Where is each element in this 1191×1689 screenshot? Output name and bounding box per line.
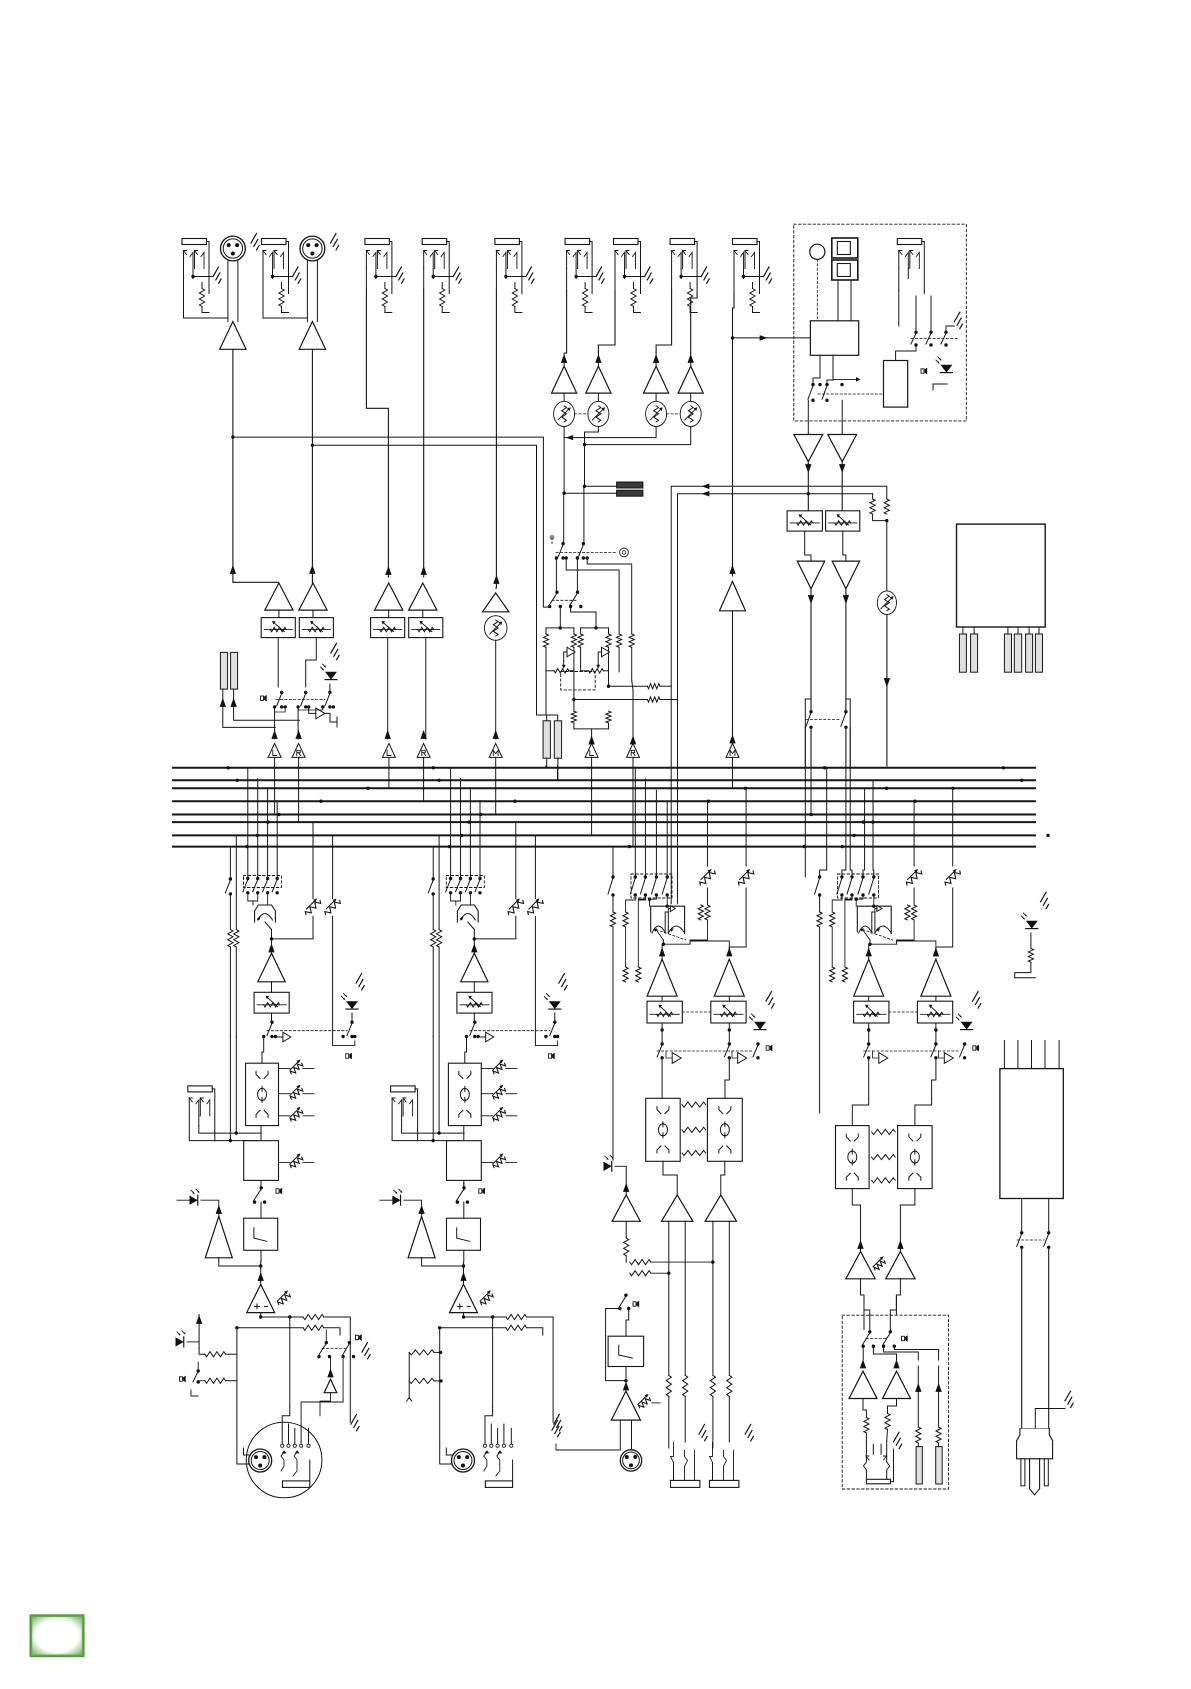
switch mainL unbal a [317,1341,331,1358]
wire st1 down [566,291,568,354]
jack J1 line input CH1 [182,239,221,313]
resistor mix h1 [647,684,660,689]
wire st3b [655,353,657,366]
wire ICa down [813,355,820,384]
wire mainR fb4 [438,1037,440,1134]
wire 2TR down [733,309,735,311]
op-amp ctrlA monoout [611,1391,640,1420]
amplifier bus feed 5 [489,743,502,757]
relay block K1 [884,361,908,408]
op-amp ctrlA powerL [662,1195,693,1221]
switch mute2 [301,691,308,709]
amplifier ctrlA bufL [672,1053,681,1064]
wire phones inL2 [864,1305,870,1332]
jack stereo input 1 [565,239,604,313]
wire ctrlA bal out R [663,941,729,953]
op-amp master out L [797,561,824,589]
switch mainR src4 [465,877,472,895]
wire ctrlA oR2b [728,1396,730,1442]
node bus junction [871,820,874,823]
arrow phones aL [915,1383,921,1392]
wire mix return R [678,494,873,904]
node bus junction [628,845,631,848]
switch ctrlB mL [864,1042,871,1059]
capacitor phones cL [916,1447,922,1484]
wire psu pin4 [1044,1041,1046,1069]
potentiometer mainL pan [255,905,276,930]
node bus junction [1002,766,1005,769]
switch mainL pfl [347,1021,354,1039]
wire ctrlB dnR [932,1058,936,1099]
wire ctrlA j2 [626,895,636,912]
wire ctrlA monoh2b [651,1272,669,1274]
op-amp gain CH5 [483,593,509,612]
wire mainL pad2b [198,1381,205,1382]
node CH2 insert tap [311,444,314,447]
arrow mainL unbal [327,1368,333,1377]
wire mainR post dn [463,1183,465,1188]
wire phones w3 [873,1346,896,1360]
wire ctrlB j2b [831,927,833,967]
switch mute3 [325,691,332,709]
wire ctrlA mono1 [615,1165,626,1167]
switch ctrlB s2 [837,875,844,896]
wire phones jack pin3 [930,296,932,332]
wire ctrlB eqL dn [852,1189,860,1252]
wire ctrlA Rf [728,996,730,1001]
ground mainL led [356,974,364,990]
wire amp-pot 4 [690,393,692,401]
wire mainR xlr feed [440,1448,452,1464]
wire ctrlA s4 up [655,790,657,877]
wire mainL src2 up [247,768,249,879]
op-amp preamp CH1 [220,322,246,350]
wire ctrlA j2b [625,927,627,967]
potentiometer fader CH4 [409,618,443,638]
switch ctrlB s3 [847,875,854,896]
equalizer ctrlA R [707,1098,742,1161]
wire amp-pot 2 [597,393,599,401]
dashed phones gang [866,1338,888,1340]
node bus junction [852,834,855,837]
potentiometer fader CH3 [371,618,405,638]
wire 7seg down b [850,281,852,321]
wire mainR lc dn [463,1180,465,1190]
wire mainL lc dn [260,1180,262,1190]
ground mainR led [559,974,567,990]
wire swR stub [583,485,586,544]
transformer block [957,524,1046,627]
op-amp ctrlB phR [886,1252,915,1279]
arrow ctrlB La [857,1240,863,1249]
bracket insR [849,699,851,728]
led mainR indicator [544,994,561,1010]
switch mainR mute [470,1021,477,1039]
dashed ctrlA gang [631,874,672,898]
wire st4 down [691,294,697,354]
wire capL out [223,689,275,727]
wire net2 l [580,628,582,634]
amplifier buffer ch12 [316,708,325,719]
node stR [583,443,586,446]
resistor tapefeed L [617,634,622,647]
wire phones capL [917,1443,919,1447]
node bus junction [841,845,844,848]
switch tape mon R [569,591,579,609]
resistor loop b [606,686,611,723]
wire resnet b [572,698,677,701]
capacitor phones cR [936,1447,943,1484]
wire mainR fbdn2 [438,947,440,1037]
wire XLR to preamp CH1 [228,261,238,322]
ground ctrlA outR [745,1424,753,1440]
wire mainR outbar side [510,1428,512,1444]
wire ctrlA mono0 [603,1160,614,1166]
op-amp phones L [849,1371,877,1398]
node bus junction [448,845,451,848]
wire ctrlA pL1 [668,1221,670,1375]
potentiometer level 2 [588,401,609,426]
wire ctrlA mono8 [625,1367,627,1392]
wire mainL aux1 dn [272,916,314,939]
equalizer ctrlB R [898,1126,933,1189]
wire ctrlB aux1 dn [913,888,915,905]
switch tape L [558,542,565,560]
wire gain out 4 [422,610,424,618]
wire mfR down [842,531,844,555]
wire ctrlA s3 up [644,779,646,877]
led mainR peak [392,1189,402,1205]
resistor ctrlB aux1r2 [912,905,917,920]
wire ctrlA aux1 dn [707,888,709,905]
wire mainL unbal1 [325,1330,327,1343]
wire mainR outbar r [512,1460,514,1481]
node ctrlB balout [868,943,871,946]
resistor ctrlA aux1r2 [705,905,710,920]
node bus junction [277,813,280,816]
wire bus line 6 [173,821,1035,823]
wire mainL unbal3 [330,1357,332,1370]
wire mainL eq1b [303,1068,314,1070]
dashed ctrlA mgang [657,1050,752,1052]
connector ctrlA mono XLR [620,1450,641,1471]
resistor tapefeed R [629,634,634,647]
wire bus line 7 [173,834,1035,836]
switch ctrlA s3 [640,875,647,896]
wire mainL eq3b [303,1115,314,1117]
wire mainL outnet1 [261,1313,303,1317]
node ctrlA nL [660,1028,663,1031]
resistor loop a [571,700,576,724]
dashed mainR srcgang [446,876,484,888]
jack J5 line input [495,239,534,313]
resistor mix h2 [647,697,660,702]
wire ctrlB j5 [856,895,863,906]
wire mainL fbdn2 [235,947,237,1037]
wire mainL outdn b [243,1402,245,1448]
node ctrlA balout [662,943,665,946]
wire phones gw [891,1449,894,1482]
wire ctrlA s1 up [612,847,614,877]
dashed mains gang [1017,1239,1044,1241]
wire mainL unbal5 [301,1357,343,1424]
switch phones R [882,1330,892,1348]
amplifier bus feed 4 [417,743,430,757]
wire mainR aux2 dn [534,916,536,1045]
potentiometer ctrlB phpot [873,1256,885,1270]
wire mainR buf [478,1036,486,1039]
wire phones inR3 [890,1295,896,1315]
resistor phones L [884,499,889,514]
speaker mainL sw icon [276,1188,282,1195]
wire bf6 stub [591,757,593,835]
arrow st2 [595,354,601,363]
op-amp mainR channel [461,953,488,982]
switch mainL src3 [253,877,260,895]
node ctrlA balfeed [648,898,651,901]
wire sw out4 [587,558,632,634]
potentiometer ctrlA balance [651,906,686,941]
arrow bm2 [295,730,301,739]
bracket ch12 [336,717,338,727]
led indicator power [936,357,953,373]
switch mainL src5 [272,877,279,895]
switch net phones b [926,331,933,347]
wire mainL aux2 dn [332,916,334,1045]
speaker ctrlA sw icon [633,1301,639,1308]
arrow ctrlB Ra [897,1240,903,1249]
arrow moL [808,595,814,604]
wire mfL down [804,531,806,555]
node bus junction [438,779,441,782]
ground led ch12 [331,643,339,659]
switch ctrlB s4 [858,875,865,896]
wire ctrlA eqL dn [663,1161,677,1195]
potentiometer phones level [877,591,896,615]
arrow st1 [561,354,567,363]
resistor ctrlA r3 [623,967,628,982]
wire mainL padsw [197,1362,199,1371]
wire ctrlA monognd w [556,1444,619,1450]
potentiometer mainL eq3 [290,1107,303,1121]
dashed lamp wire [816,259,818,320]
dashed mainL unbal [322,1348,346,1350]
jack mainL aux send [188,1086,215,1141]
potentiometer ctrlA faderL [647,1001,682,1023]
node bus junction [951,787,954,790]
wire ctrlB j1b [819,927,821,1113]
wire mainL peak [177,1199,189,1201]
wire mainR aux1 dn [474,916,516,939]
switch mute1 [277,691,284,709]
wire 2TR to meterIC [733,337,811,339]
wire sw out1 [555,558,558,592]
wire st2 down [598,291,615,354]
potentiometer ctrlA faderR [711,1001,746,1023]
resistor mainR pad1 [409,1350,434,1355]
op-amp gain CH3 [375,583,403,610]
wire mainR outdn2 [492,1317,494,1407]
switch meter b [822,383,829,402]
node net1 [559,626,562,629]
amplifier bus feed 2 [292,743,305,757]
wire psu pin1 [1003,1041,1005,1069]
resistor ctrlA monor [624,1238,629,1256]
dashed box phones section [842,1315,948,1489]
wire net2 r [608,628,610,634]
jack mainR output [485,1481,512,1488]
wire amp-pot 1 [563,393,565,401]
wire net2 l2 [580,647,582,671]
wire mainL outnet2 [236,835,238,1327]
wire mainL unbal2 [349,1330,350,1343]
wire mainR pad2b [434,1379,443,1382]
op-amp mainR limiter [408,1216,435,1258]
switch ctrlB mono [960,1042,967,1059]
arrow meter feed [760,335,768,341]
wire 2TR amp out [732,611,734,760]
wire mainR amp out [473,982,475,993]
block power supply unit [1000,1069,1063,1199]
wire moL top [805,555,811,561]
arrow phones aR [935,1383,941,1392]
node bus junction [227,766,230,769]
wire ctrlB j2 [832,895,842,912]
wire 2TR vertical [733,291,735,577]
amplifier ctrlA bufR [738,1053,747,1064]
wire capR out [234,689,300,720]
contact extra [818,383,843,386]
potentiometer net2 [581,662,609,673]
resistor net1 b [571,634,576,647]
arrow bf8 [729,734,735,743]
wire phones jack j [899,325,916,327]
switch mainR pfl [550,1021,557,1039]
resistor phones R [870,499,875,514]
wire phones dn3 [938,1366,940,1427]
node mainR o3 [491,1315,494,1318]
wire psu pin5 [1058,1041,1060,1069]
ground ctrlA g1 [766,992,774,1008]
arrow mainR amp in [471,943,477,952]
wire mainR fb3 [432,1037,434,1141]
bracket insL [804,699,806,728]
wire mainR lc b [506,1161,517,1163]
node mainR fb3j [432,1139,435,1142]
wire phones jack pin2 [915,296,917,332]
op-amp mainR output [450,1284,478,1312]
amplifier bus feed 1 [268,743,281,757]
resistor ctrlB link2 [872,1155,896,1160]
bracket mainL [333,1041,354,1046]
resistor net2 a [578,634,583,647]
potentiometer level CH5 [484,616,507,641]
wire mainR auxjack B [392,1138,460,1143]
wire mainR src3 up [460,779,462,879]
speaker ctrlB icon [973,1045,979,1052]
wire mainL src3 up [257,779,259,879]
potentiometer mainL eq2 [290,1085,303,1099]
dashed ctrlB fadgang [889,1011,918,1013]
wire tm3 [571,607,596,628]
capacitor C tape L [543,721,550,758]
resistor ctrlA r4 [636,967,641,982]
led talent [1021,913,1038,929]
switch mainR src3 [456,877,463,895]
switch mainR src1 [428,877,435,895]
wire mainR outnet5 [527,1328,543,1335]
potentiometer mainR eq1 [493,1060,506,1074]
node bus junction [803,845,806,848]
wire phones inL [863,1295,865,1305]
op-amp stereo 2 [586,366,611,393]
wire mainR outnet1 [464,1313,506,1317]
wire mainL eq dn [260,1126,262,1141]
wire ctrlA j1b [612,927,614,1160]
potentiometer ctrlB balance [857,906,892,941]
wire net2 r2 [608,647,610,686]
switch ctrlA mL [657,1042,664,1059]
resistor ctrlB r4 [842,967,847,982]
wire stR join [585,427,691,445]
block mainL knee [244,1218,278,1250]
wire CH1 preamp out [233,349,278,582]
dashed gang st34 [667,413,681,415]
potentiometer master fader R [826,511,860,531]
wire mainL lc b [303,1161,314,1163]
op-amp stereo 3 [644,366,669,393]
wire amp-pot 3 [655,393,657,401]
potentiometer fader CH1 [261,618,295,638]
jack mainR out pins [483,1424,512,1476]
wire mainR eq3b [506,1115,517,1117]
wire phones down [886,615,888,767]
node bus junction [467,820,470,823]
dashed ins gang [806,719,841,721]
op-amp master out R [832,561,859,589]
lamp power indicator [810,244,825,259]
node ctrlA nR [728,1028,731,1031]
wire mainR knee dn [463,1250,465,1262]
dashed gang st12 [575,413,588,415]
potentiometer ctrlA auxmaster1 [700,869,715,885]
wire meterout L [807,400,809,434]
wire bf5 stub [495,757,497,814]
switch master insert R [841,710,848,729]
switch mainL src1 [225,877,232,895]
op-amp mainL output [247,1284,275,1312]
wire moL down [810,589,812,712]
node bus junction [1020,779,1023,782]
wire phones jack down [898,291,900,327]
wire mains dnL [1021,1247,1023,1429]
node grey [549,535,554,540]
arrow mainR sum [460,1272,466,1281]
node net2 [594,626,597,629]
wire tapecapL stub [545,766,547,768]
speaker ctrlA icon [766,1045,772,1052]
wire mainR peak [380,1199,392,1201]
wire st4b [690,353,692,366]
wire mainR padv2 [408,1381,410,1397]
wire ctrlB Rf [935,996,937,1001]
wire masterL bus [810,766,812,815]
wire ctrlA oL2b [684,1396,686,1442]
wire ctrlA mono6 [606,1309,626,1381]
wire mainR fb up [432,894,434,930]
node bus junction [823,766,826,769]
wire mute down1 [274,707,276,739]
